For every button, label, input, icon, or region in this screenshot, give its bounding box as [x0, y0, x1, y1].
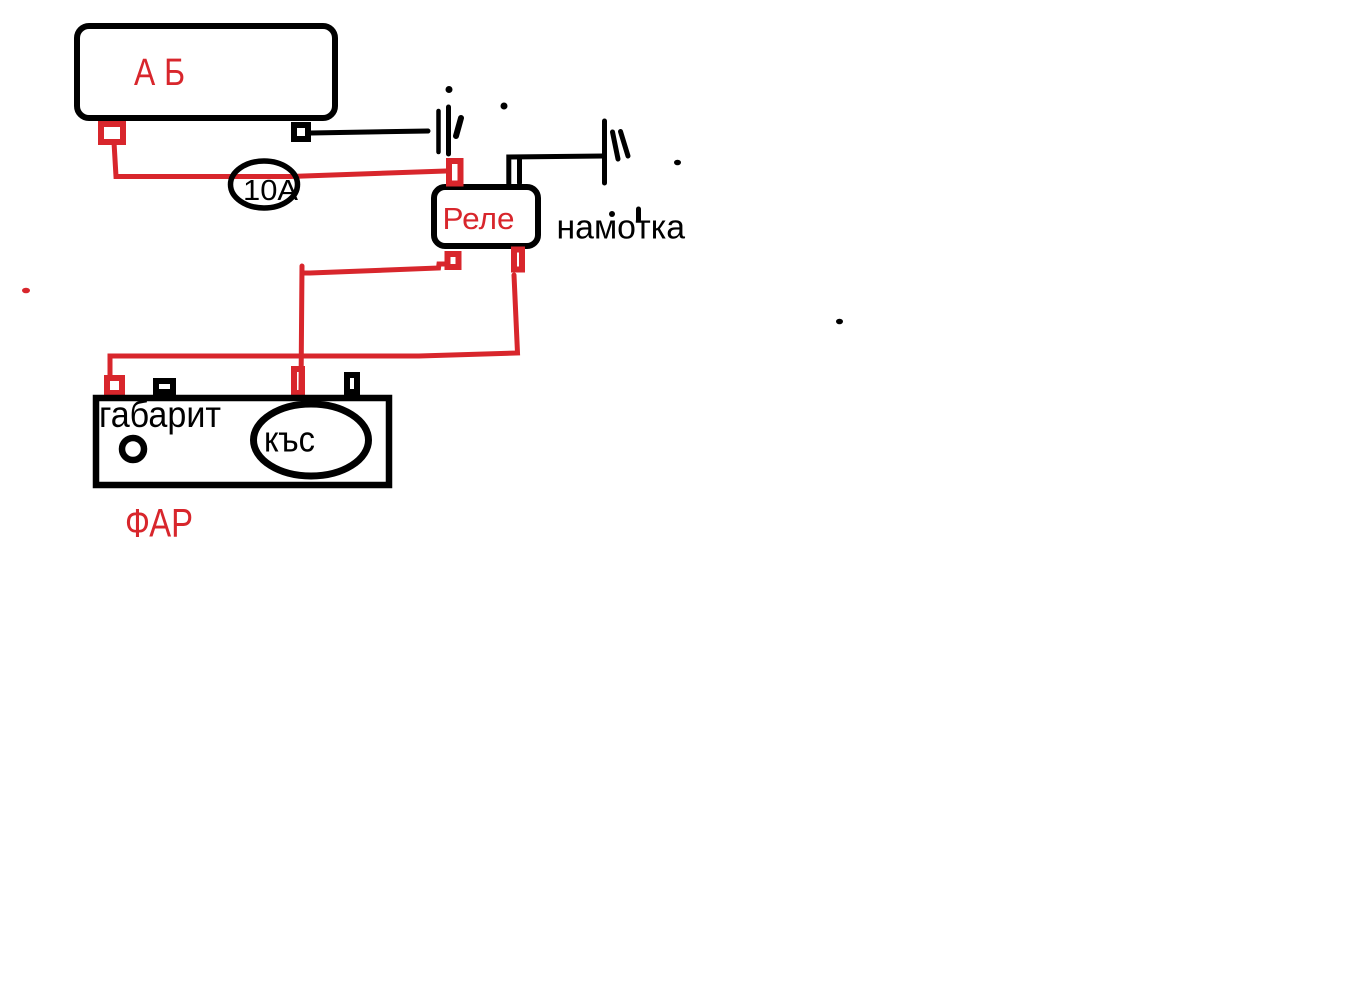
svg-text:намотка: намотка — [557, 209, 686, 247]
relay terminal 86 (bottom-right, red) — [514, 250, 522, 270]
svg-text:къс: къс — [264, 419, 315, 460]
wire: relay coil leg (black) — [517, 159, 522, 183]
svg-text:А Б: А Б — [134, 52, 185, 94]
battery negative terminal (black) — [294, 125, 308, 139]
fuse F1 body — [231, 161, 298, 208]
battery positive terminal (red) — [101, 124, 123, 142]
wire: battery positive through fuse to relay pin 30 (red) — [114, 142, 446, 177]
headlamp terminal 4 (black) — [347, 375, 357, 392]
wire: relay 86 down to long run (red) — [110, 275, 518, 375]
battery АБ body — [77, 26, 335, 118]
stray dot near ground G1 — [446, 86, 453, 93]
low-beam ellipse — [254, 404, 369, 476]
relay terminal 30 (top, red) — [449, 161, 461, 184]
stray black dot right middle — [836, 319, 843, 325]
wire: relay 87 down-left to headlamp къс terminal (red) — [302, 264, 446, 273]
stray dot above намотка — [609, 211, 615, 217]
relay terminal 87 (bottom-left, red) — [448, 254, 459, 267]
headlamp terminal 3 (red, къс supply) — [294, 369, 302, 393]
indicator circle (габарит bulb) — [122, 438, 144, 460]
svg-text:10А: 10А — [243, 175, 299, 207]
wire: battery negative to ground G1 — [311, 131, 428, 133]
stray dot right of ground G2 — [674, 160, 681, 166]
relay body — [434, 187, 538, 246]
stray dot right of ground G1 — [501, 103, 508, 110]
headlamp body ФАР — [96, 398, 389, 485]
headlamp terminal 1 (red, габарит supply) — [107, 378, 122, 393]
ground G1 (battery negative) — [439, 107, 462, 154]
stray red dot left margin — [22, 288, 30, 294]
headlamp terminal 2 (black) — [156, 381, 173, 392]
svg-text:габарит: габарит — [99, 394, 221, 435]
wire: relay coil to ground G2 (black) — [509, 156, 604, 186]
stray tick above намотка — [636, 209, 641, 220]
wire: vertical drop to headlamp къс terminal (red) — [301, 266, 302, 391]
svg-text:ФАР: ФАР — [125, 502, 193, 546]
ground G2 (relay coil) — [605, 121, 629, 183]
svg-text:Реле: Реле — [443, 201, 515, 236]
